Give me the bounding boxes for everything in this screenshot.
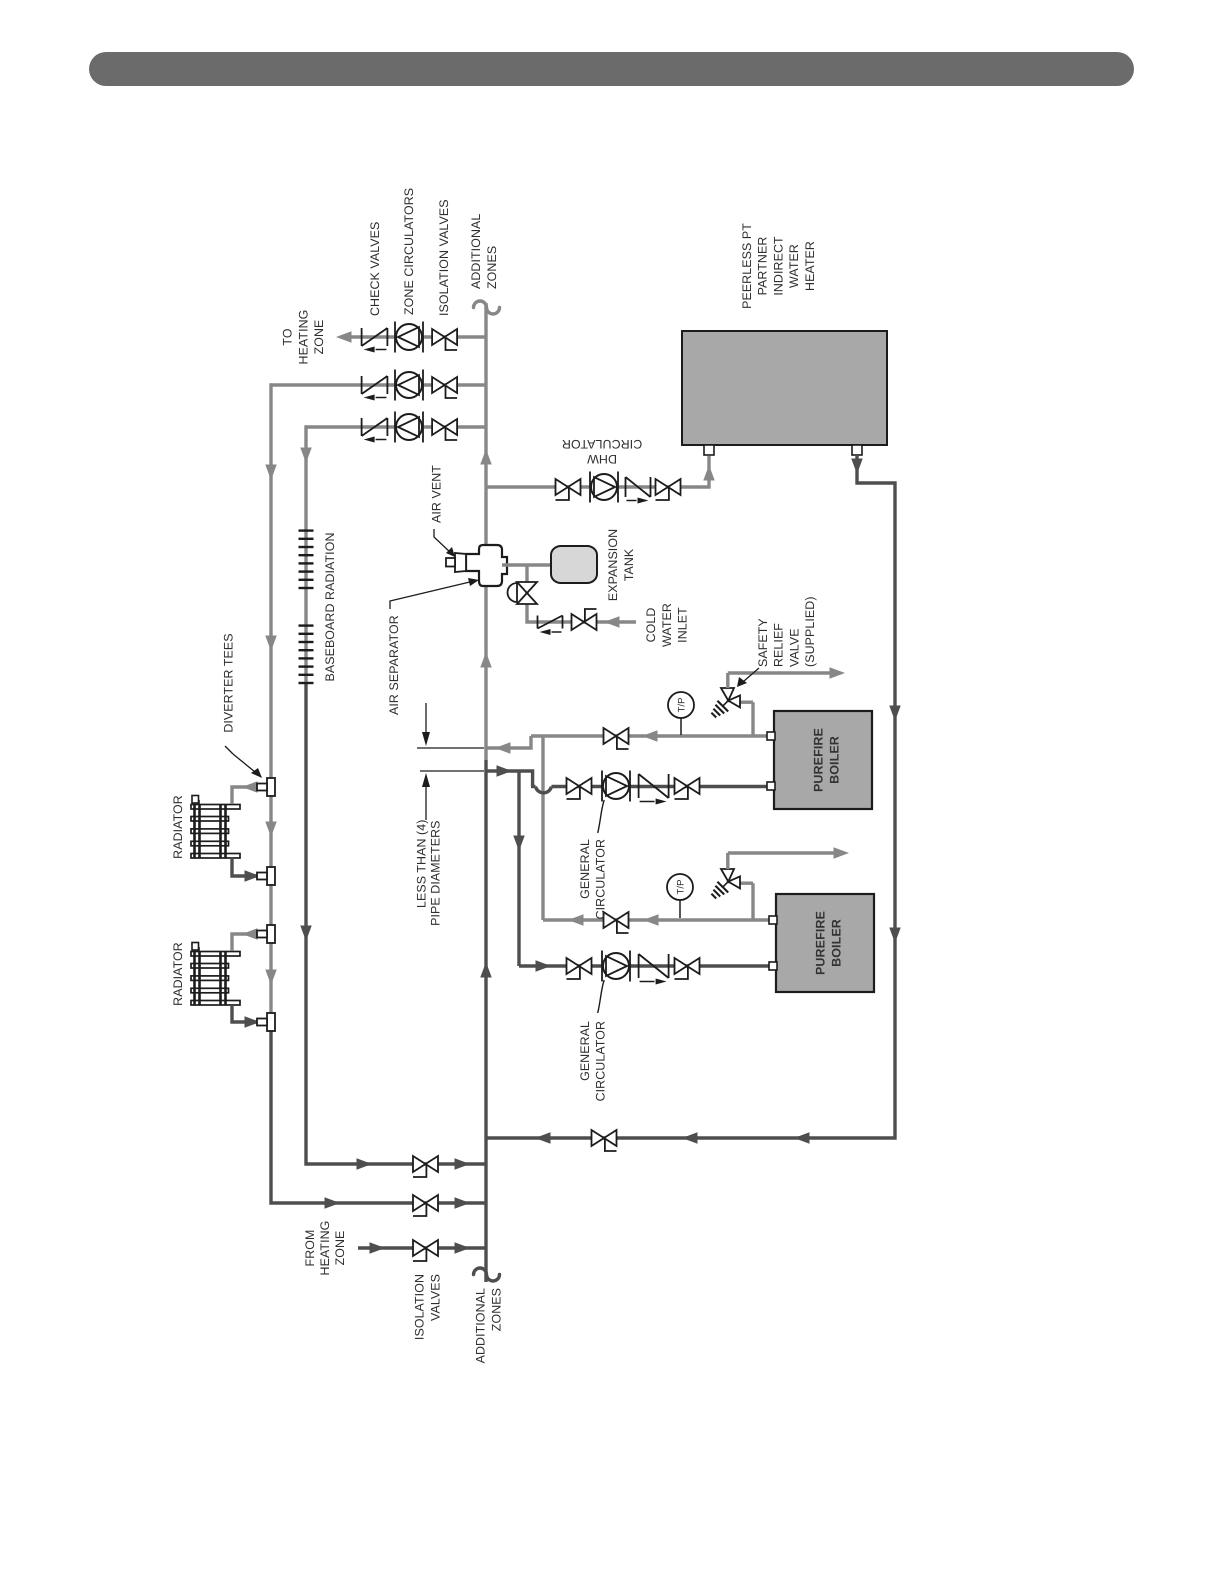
- label GENERAL CIRCULATOR (boiler2) with leader: [578, 980, 608, 1101]
- valve on cold water line: [572, 609, 597, 630]
- dimension line at supply tee (thin): [417, 747, 484, 749]
- diverter tee 1 (radiator A supply): [257, 778, 275, 796]
- svg-text:RADIATOR: RADIATOR: [171, 795, 185, 859]
- svg-text:COLD: COLD: [644, 608, 658, 643]
- flow arrow on supply main at x=924: [480, 652, 492, 668]
- baseboard radiation fin group 1: [299, 531, 314, 588]
- flow arrow return tee downward: [497, 765, 513, 777]
- valve on DHW supply (lower): [656, 479, 681, 500]
- svg-text:EXPANSION: EXPANSION: [606, 529, 620, 601]
- svg-text:T/P: T/P: [676, 879, 687, 894]
- dimension line at return tee (thin): [420, 770, 484, 772]
- svg-text:WATER: WATER: [787, 244, 801, 288]
- svg-text:ZONES: ZONES: [490, 1288, 504, 1331]
- svg-text:ADDITIONAL: ADDITIONAL: [469, 214, 483, 289]
- general circulator boiler2: [602, 951, 630, 982]
- wire: boiler2 return drop: [519, 964, 770, 967]
- svg-text:(SUPPLIED): (SUPPLIED): [803, 596, 817, 667]
- svg-text:BOILER: BOILER: [830, 919, 844, 967]
- label EXPANSION TANK: [606, 529, 636, 601]
- pipe break squiggle left (additional zones): [474, 1268, 500, 1281]
- label ISOLATION VALVES (top): [437, 199, 451, 316]
- wire: zone supply riser Z1 to-heating-zone: [341, 335, 486, 338]
- wire: boiler supply header: [531, 736, 770, 920]
- flow arrow DHW return x=649: [889, 928, 901, 944]
- svg-text:INLET: INLET: [676, 607, 690, 643]
- T/P gauge boiler2: [667, 874, 693, 918]
- valve on DHW supply: [556, 479, 581, 500]
- safety relief valve boiler1 with discharge pipe: [711, 667, 845, 736]
- general circulator boiler1: [602, 771, 630, 802]
- water heater supply stub: [704, 445, 714, 455]
- flow arrow radiator return riser y=331: [325, 1197, 341, 1209]
- svg-text:WATER: WATER: [660, 603, 674, 647]
- flow arrow radiator loop x=1112: [265, 465, 277, 481]
- wire: DHW return from heater to main (dark): [486, 455, 895, 1138]
- label ADDITIONAL ZONES (bottom-left): [474, 1288, 504, 1363]
- svg-text:ZONE: ZONE: [333, 1231, 347, 1266]
- expansion tank: [551, 546, 597, 583]
- valve on boiler1 return (lower): [675, 778, 700, 799]
- svg-text:BASEBOARD RADIATION: BASEBOARD RADIATION: [323, 532, 337, 681]
- boiler2 supply stub: [769, 916, 777, 924]
- flow arrow into radiator B supply: [242, 928, 258, 940]
- label PEERLESS PT PARTNER INDIRECT WATER HEATER: [740, 223, 817, 309]
- wire: expansion tank connection: [502, 563, 554, 566]
- water heater return stub: [852, 445, 862, 455]
- wire: baseboard loop return (dark) to main: [306, 683, 486, 1164]
- svg-text:DHW: DHW: [587, 452, 617, 466]
- svg-text:PIPE DIAMETERS: PIPE DIAMETERS: [429, 821, 443, 926]
- svg-text:BOILER: BOILER: [828, 736, 842, 784]
- svg-text:T/P: T/P: [677, 697, 688, 712]
- svg-text:TO: TO: [281, 328, 295, 345]
- wire: radiator A supply riser from diverter tee: [232, 787, 262, 804]
- svg-text:LESS THAN (4): LESS THAN (4): [415, 820, 429, 909]
- svg-text:PUREFIRE: PUREFIRE: [814, 911, 828, 975]
- svg-text:RELIEF: RELIEF: [772, 623, 786, 667]
- zone circulator on riser Z1 to-heating-zone: [395, 322, 423, 353]
- flow arrow boiler2 return drop: [536, 960, 552, 972]
- isolation valve on riser Z3 baseboard loop: [432, 419, 457, 440]
- svg-text:CHECK VALVES: CHECK VALVES: [368, 222, 382, 316]
- wire: boiler supply riser to main (gray): [486, 736, 531, 748]
- wire: radiator A return riser to diverter tee: [232, 858, 262, 876]
- wire: baseboard loop supply horizontal (gray): [306, 427, 307, 683]
- flow arrow DHW return riser y=543: [535, 1132, 551, 1144]
- svg-text:ISOLATION: ISOLATION: [413, 1274, 427, 1340]
- baseboard radiation fin group 2: [299, 626, 314, 683]
- diverter tee 2 (radiator A return): [257, 867, 275, 885]
- flow arrow from-heating-zone y=461: [455, 1242, 471, 1254]
- isolation valve on baseboard return riser: [413, 1156, 438, 1177]
- wire: DHW supply from main to water heater (gray): [486, 456, 709, 487]
- flow arrow baseboard return x=651: [300, 926, 312, 942]
- flow arrow DHW return riser y=690: [682, 1132, 698, 1144]
- flow arrow into water heater: [703, 465, 715, 481]
- flow arrow radiator bypass B: [265, 970, 277, 986]
- label CHECK VALVES: [368, 222, 382, 316]
- valve on DHW return riser: [592, 1130, 617, 1151]
- svg-text:PARTNER: PARTNER: [756, 237, 770, 296]
- boiler1 supply stub: [767, 732, 775, 740]
- valve on boiler1 return: [567, 778, 592, 799]
- svg-text:AIR SEPARATOR: AIR SEPARATOR: [387, 615, 401, 715]
- svg-text:ADDITIONAL: ADDITIONAL: [474, 1288, 488, 1363]
- diverter tee 4 (radiator B return): [257, 1013, 275, 1031]
- flow arrow boiler2 supply riser y=651: [643, 914, 659, 926]
- pipe break squiggle right (additional zones): [474, 301, 500, 314]
- svg-text:ZONES: ZONES: [485, 246, 499, 289]
- flow arrow to heating zone (riser Z1 top): [336, 331, 352, 343]
- wire: radiator B supply riser from diverter tee: [232, 934, 262, 951]
- boiler2 return stub: [769, 962, 777, 970]
- svg-text:GENERAL: GENERAL: [578, 839, 592, 899]
- valve on boiler2 return: [567, 958, 592, 979]
- label RADIATOR (A): [171, 795, 185, 859]
- svg-text:FROM: FROM: [303, 1230, 317, 1267]
- label FROM HEATING ZONE: [303, 1221, 347, 1276]
- isolation valve on riser Z1 to-heating-zone: [432, 329, 457, 350]
- wire: main return (left) horizontal: [484, 760, 487, 1282]
- pressure reducing valve (PRV): [508, 582, 537, 604]
- svg-text:PEERLESS PT: PEERLESS PT: [740, 223, 754, 309]
- boiler 1 (PUREFIRE BOILER): [774, 711, 872, 809]
- label COLD WATER INLET: [644, 603, 690, 647]
- svg-text:ZONE CIRCULATORS: ZONE CIRCULATORS: [402, 188, 416, 315]
- label SAFETY RELIEF VALVE (SUPPLIED) with leader: [737, 596, 817, 687]
- check valve on riser Z2 radiator loop: [362, 376, 388, 401]
- flow arrow baseboard loop x=1129: [300, 448, 312, 464]
- svg-text:ISOLATION VALVES: ISOLATION VALVES: [437, 199, 451, 316]
- wire: radiator loop return (dark) to main: [271, 1022, 486, 1203]
- svg-text:DIVERTER TEES: DIVERTER TEES: [222, 633, 236, 732]
- svg-text:VALVE: VALVE: [787, 628, 801, 667]
- valve on boiler2 supply: [604, 912, 629, 933]
- check valve on riser Z1 to-heating-zone: [362, 328, 388, 353]
- zone circulator on riser Z2 radiator loop: [395, 370, 423, 401]
- label TO HEATING ZONE: [281, 310, 326, 365]
- flow arrow return header leftward: [513, 836, 525, 852]
- flow arrow radiator bypass A: [265, 822, 277, 838]
- flow arrow on supply main at x=1127: [480, 449, 492, 465]
- flow arrow baseboard riser y=461: [455, 1158, 471, 1170]
- wire: cold water make-up line to PRV: [527, 565, 636, 622]
- svg-text:RADIATOR: RADIATOR: [171, 942, 185, 1006]
- water heater (Peerless PT Partner): [682, 331, 887, 445]
- svg-text:SAFETY: SAFETY: [756, 618, 770, 667]
- title header bar: [89, 52, 1134, 86]
- flow arrow radiator return riser y=461: [455, 1197, 471, 1209]
- flow arrow radiator A return: [245, 870, 261, 882]
- wire: zone supply riser Z2 radiator loop: [271, 383, 486, 386]
- DHW circulator: [590, 472, 618, 503]
- isolation valve on radiator return riser: [413, 1195, 438, 1216]
- flow arrow baseboard riser y=363: [357, 1158, 373, 1170]
- flow arrow radiator loop x=941: [265, 636, 277, 652]
- svg-text:CIRCULATOR: CIRCULATOR: [594, 839, 608, 919]
- zone circulator on riser Z3 baseboard loop: [395, 412, 423, 443]
- check valve DHW supply: [626, 477, 651, 504]
- flow arrow on return main at x=614: [480, 962, 492, 978]
- svg-text:ZONE: ZONE: [312, 320, 326, 355]
- label ZONE CIRCULATORS: [402, 188, 416, 315]
- label DIVERTER TEES with leader: [222, 633, 263, 778]
- flow arrow from-heating-zone y=376: [370, 1242, 386, 1254]
- check valve boiler1 return: [639, 774, 669, 805]
- radiator A (right): [191, 796, 240, 859]
- svg-text:HEATING: HEATING: [318, 1221, 332, 1276]
- flow arrow boiler supply into main: [495, 742, 511, 754]
- check valve boiler2 return: [639, 954, 669, 985]
- safety relief valve boiler2 with discharge pipe: [711, 847, 849, 920]
- dimension arrow left segment: [422, 773, 430, 820]
- wire: radiator B return riser to diverter tee: [232, 1005, 262, 1022]
- svg-text:CIRCULATOR: CIRCULATOR: [562, 437, 642, 451]
- flow arrow boiler2 supply riser y=576: [568, 914, 584, 926]
- diverter tee 3 (radiator B supply): [257, 925, 275, 943]
- flow arrow into radiator A supply: [242, 781, 258, 793]
- radiator B (left): [191, 943, 240, 1006]
- svg-text:PUREFIRE: PUREFIRE: [812, 728, 826, 792]
- isolation valve on from-heating-zone riser: [413, 1240, 438, 1261]
- wire: zone supply riser Z3 baseboard loop: [306, 425, 486, 428]
- wire: main supply (right) horizontal: [484, 303, 487, 760]
- flow arrow boiler1 supply riser: [642, 730, 658, 742]
- label AIR SEPARATOR with leader: [387, 578, 479, 715]
- svg-text:INDIRECT: INDIRECT: [771, 236, 785, 296]
- valve on boiler2 return (lower): [675, 958, 700, 979]
- label GENERAL CIRCULATOR (boiler1) with leader: [578, 800, 608, 919]
- label LESS THAN (4) PIPE DIAMETERS: [415, 820, 443, 926]
- flow arrow radiator B return: [245, 1016, 261, 1028]
- check valve on riser Z3 baseboard loop: [362, 418, 388, 443]
- flow arrow cold water inlet: [604, 616, 620, 628]
- svg-text:HEATER: HEATER: [803, 241, 817, 291]
- svg-text:AIR VENT: AIR VENT: [430, 465, 444, 523]
- dimension arrow right segment: [422, 703, 430, 746]
- wire: boiler1 return drop with pipe bridge over supply header: [531, 787, 770, 793]
- wire: boiler return from main (dark): [486, 771, 533, 966]
- label ADDITIONAL ZONES (top-right): [469, 214, 499, 289]
- svg-text:GENERAL: GENERAL: [578, 1021, 592, 1081]
- svg-text:TANK: TANK: [622, 548, 636, 581]
- T/P gauge boiler1: [668, 692, 694, 735]
- svg-text:VALVES: VALVES: [429, 1274, 443, 1321]
- label ISOLATION VALVES (bottom): [413, 1274, 443, 1340]
- valve on boiler1 supply: [604, 728, 629, 749]
- flow arrow DHW return riser y=802: [794, 1132, 810, 1144]
- boiler 2 (PUREFIRE BOILER): [776, 894, 874, 992]
- flow arrow DHW return x=871: [889, 706, 901, 722]
- label BASEBOARD RADIATION: [323, 532, 337, 681]
- flow arrow out of water heater: [851, 459, 863, 475]
- wire: from-heating-zone return riser: [358, 1246, 486, 1249]
- label AIR VENT with leader: [430, 465, 456, 557]
- boiler1 return stub: [767, 782, 775, 790]
- isolation valve on riser Z2 radiator loop: [432, 377, 457, 398]
- backflow preventer on cold water line: [538, 616, 563, 636]
- label RADIATOR (B): [171, 942, 185, 1006]
- label DHW CIRCULATOR (rotated): [562, 437, 642, 466]
- air separator body on main: [446, 545, 507, 586]
- svg-text:HEATING: HEATING: [296, 310, 310, 365]
- wire: radiator loop supply horizontal (gray): [271, 385, 272, 1022]
- svg-text:CIRCULATOR: CIRCULATOR: [594, 1021, 608, 1101]
